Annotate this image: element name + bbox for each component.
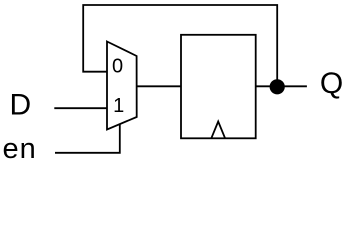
wire: mux output to flip-flop D input — [137, 85, 181, 87]
flip-flop clock input triangle — [211, 122, 225, 139]
svg-text:1: 1 — [113, 95, 124, 117]
wire: feedback from node Q back to mux input 0 — [83, 5, 277, 87]
junction dot on Q node — [270, 79, 285, 94]
wire: en select into mux bottom — [55, 124, 120, 153]
multiplexer U1 (2:1 mux) — [107, 42, 137, 130]
svg-text:D: D — [10, 88, 32, 121]
svg-text:0: 0 — [112, 55, 123, 77]
svg-text:en: en — [3, 133, 37, 164]
D flip-flop U2 — [181, 35, 256, 139]
svg-text:Q: Q — [320, 67, 343, 100]
wire: flip-flop output to Q — [256, 85, 307, 87]
wire: D input to mux port 1 — [54, 107, 107, 109]
